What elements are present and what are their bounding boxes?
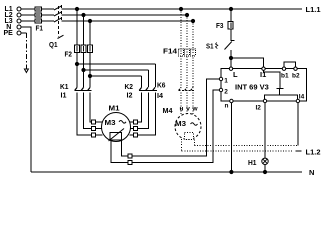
ground arrow PE xyxy=(24,69,28,73)
svg-text:L1.2: L1.2 xyxy=(306,148,321,157)
svg-text:M3: M3 xyxy=(105,118,116,127)
wire L3 rail xyxy=(21,20,193,22)
fuse F14 (optional, dotted) xyxy=(179,49,196,56)
wire dotted drop v xyxy=(186,15,188,87)
net label L1.1 xyxy=(306,5,321,14)
wire I4 down xyxy=(297,103,299,146)
svg-text:M1: M1 xyxy=(109,104,120,113)
wire sensor to pin2 xyxy=(132,90,219,163)
wire N drop xyxy=(21,27,31,172)
contactor K2 xyxy=(125,82,158,100)
lamp H1 xyxy=(248,158,268,167)
svg-text:w: w xyxy=(191,106,198,113)
motor terminal left mid xyxy=(92,127,102,131)
bridge b1-b2 xyxy=(284,62,296,67)
svg-text:2: 2 xyxy=(224,89,228,96)
contactor K6 (optional, dashed) xyxy=(179,87,195,90)
wire dotted sensor line upper xyxy=(195,145,298,147)
node L1/K1 branch xyxy=(75,7,78,10)
switch Q1 xyxy=(49,5,64,49)
svg-text:I1: I1 xyxy=(61,91,67,100)
wire M4 lead right dotted xyxy=(194,140,196,146)
motor terminal right mid xyxy=(130,127,137,131)
protection module U1 INT 69 VS xyxy=(221,69,307,112)
wire PE drop xyxy=(21,33,26,69)
svg-text:F2: F2 xyxy=(65,50,73,59)
svg-text:PE: PE xyxy=(4,30,14,37)
thermistor in M4 (dotted) xyxy=(185,133,194,140)
terminal PE xyxy=(4,30,22,37)
motor terminal right top xyxy=(130,120,138,124)
svg-text:I4: I4 xyxy=(299,94,305,101)
svg-text:v: v xyxy=(186,106,190,113)
sensor terminal upper xyxy=(128,154,132,158)
pin 2 xyxy=(219,88,222,91)
node L1/F3 tap xyxy=(229,7,232,10)
svg-text:S1: S1 xyxy=(206,42,214,51)
wire L2 rail xyxy=(21,14,187,16)
wire thermistor lead right xyxy=(122,140,129,156)
net label N xyxy=(309,168,314,177)
node F14 tap 3 xyxy=(191,19,194,22)
svg-text:F1: F1 xyxy=(36,24,44,33)
wire F3 drop xyxy=(230,9,232,22)
node F14 tap 2 xyxy=(185,13,188,16)
pin n xyxy=(230,99,233,102)
svg-text:I4: I4 xyxy=(157,91,164,100)
terminal L1 xyxy=(5,6,22,13)
wire n to N rail xyxy=(230,103,232,172)
pin 1 xyxy=(219,77,222,80)
wire F2 drop 1 xyxy=(76,9,78,87)
svg-text:N: N xyxy=(309,168,314,177)
svg-text:Q1: Q1 xyxy=(49,40,58,49)
wire to I1 xyxy=(231,58,264,67)
terminal L3 xyxy=(5,18,22,25)
svg-text:n: n xyxy=(225,103,229,110)
wire sensor to pin1 xyxy=(132,79,219,156)
pin b1 xyxy=(282,67,285,70)
wire lamp to N rail xyxy=(264,165,266,173)
wire N rail xyxy=(31,171,302,173)
motor M1 xyxy=(102,104,131,142)
wire K2 to motor bottom xyxy=(138,92,156,135)
wire dotted to M4 xyxy=(181,92,193,114)
node F14 tap 1 xyxy=(179,7,182,10)
svg-text:INT 69 V3: INT 69 V3 xyxy=(235,83,269,92)
wire K2 to motor top xyxy=(138,92,142,122)
contactor K1 xyxy=(60,82,92,100)
pin b2 xyxy=(294,67,297,70)
svg-text:b1: b1 xyxy=(281,73,289,80)
pin I4 xyxy=(296,99,299,102)
motor terminal right bottom xyxy=(130,133,138,137)
fuse F2 xyxy=(65,45,93,59)
svg-text:u: u xyxy=(180,106,184,113)
svg-text:F3: F3 xyxy=(216,21,224,30)
wire dotted sensor line lower to L1.2 xyxy=(182,150,294,152)
thermistor in M1 xyxy=(109,129,125,142)
wire K2 drop 3 xyxy=(141,76,143,87)
fuse F3 xyxy=(216,21,233,30)
terminal N xyxy=(6,24,21,31)
svg-text:L: L xyxy=(233,70,238,79)
svg-text:1: 1 xyxy=(224,78,228,85)
svg-text:K6: K6 xyxy=(157,81,166,90)
svg-text:b2: b2 xyxy=(292,73,300,80)
wire K2 drop 1 xyxy=(155,64,157,87)
wire F3 to S1 xyxy=(230,29,232,41)
internal contact of U1 xyxy=(264,70,298,99)
wire F2 drop 2 xyxy=(83,15,85,87)
motor M4 (optional, dashed) xyxy=(163,106,202,140)
wire I2 to lamp xyxy=(264,103,266,158)
svg-text:H1: H1 xyxy=(248,158,257,167)
motor terminal left top xyxy=(92,120,103,124)
wire L1 rail xyxy=(21,8,302,10)
sensor terminal lower xyxy=(128,161,132,165)
svg-text:L1.1: L1.1 xyxy=(306,5,321,14)
switch S1 xyxy=(206,41,235,51)
motor terminal left bottom xyxy=(92,133,103,137)
node S1 out xyxy=(229,56,232,59)
wire K2 drop 2 xyxy=(148,70,150,87)
wire K2 feed top xyxy=(77,63,156,65)
node K2 feed 1 xyxy=(75,62,78,65)
pin I1 xyxy=(262,67,265,70)
wire S1 to box xyxy=(230,50,232,67)
wire M4 lead left dotted xyxy=(181,139,183,151)
pin L xyxy=(229,67,232,70)
fuse F1 xyxy=(35,7,43,33)
svg-text:F14: F14 xyxy=(163,47,178,56)
terminal L2 xyxy=(5,12,22,19)
wire K1 to motor 1 xyxy=(77,92,92,135)
wire dotted drop u xyxy=(180,9,182,87)
svg-text:I2: I2 xyxy=(127,91,133,100)
pin I2 xyxy=(263,99,266,102)
node K2 feed 3 xyxy=(88,74,91,77)
node lamp/N xyxy=(263,170,266,173)
wire K1 to motor 3 xyxy=(90,92,92,122)
svg-text:M3: M3 xyxy=(175,119,186,128)
wire F2 drop 3 xyxy=(89,21,91,87)
node n/N xyxy=(230,170,233,173)
svg-text:M4: M4 xyxy=(163,106,174,115)
node L2/K1 branch xyxy=(82,13,85,16)
node L3/K1 branch xyxy=(88,19,91,22)
wire dotted drop w xyxy=(192,21,194,87)
net label L1.2 xyxy=(296,148,321,157)
wire thermistor lead left xyxy=(111,140,128,163)
wire K2 feed bottom xyxy=(90,75,142,77)
wire K1 to motor 2 xyxy=(84,92,92,128)
wire K2 to motor mid xyxy=(138,92,149,128)
wire K2 feed mid xyxy=(84,69,149,71)
node K2 feed 2 xyxy=(82,68,85,71)
svg-text:I2: I2 xyxy=(256,105,262,112)
